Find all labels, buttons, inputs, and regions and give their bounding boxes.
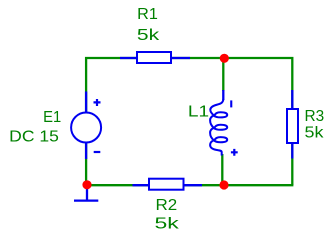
- wire: middle branch (inductor net): [222, 58, 224, 91]
- E1 minus sign: [94, 151, 101, 153]
- voltage source E1 leads: [85, 92, 87, 114]
- node: junction dot bottom middle: [219, 180, 228, 189]
- ground: [86, 186, 88, 200]
- E1 plus sign: [94, 99, 101, 106]
- resistor R3 body: [287, 109, 298, 143]
- svg-text:R1: R1: [137, 6, 158, 23]
- wire: outer loop left/top/right: [86, 58, 292, 185]
- resistor R3 leads: [291, 90, 293, 109]
- L1 plus sign: [231, 149, 238, 156]
- svg-text:5k: 5k: [155, 216, 180, 233]
- node: junction dot top middle: [220, 54, 229, 63]
- wire: bottom: [85, 184, 293, 186]
- L1 minus tick: [230, 100, 232, 107]
- inductor L1 coil: [210, 99, 227, 156]
- inductor L1 lead top: [222, 90, 224, 100]
- resistor R2 leads: [133, 184, 150, 186]
- resistor R1 body: [137, 52, 171, 63]
- node: junction dot bottom left: [82, 180, 91, 189]
- svg-text:L1: L1: [188, 104, 209, 121]
- svg-text:DC 15: DC 15: [9, 129, 59, 146]
- resistor R2 body: [149, 179, 184, 190]
- voltage source E1 circle: [71, 113, 101, 143]
- svg-text:5k: 5k: [305, 125, 324, 142]
- resistor R1 leads: [120, 57, 137, 59]
- svg-text:R3: R3: [305, 108, 325, 125]
- svg-text:E1: E1: [43, 109, 61, 126]
- svg-text:R2: R2: [156, 197, 178, 214]
- svg-text:5k: 5k: [137, 27, 160, 44]
